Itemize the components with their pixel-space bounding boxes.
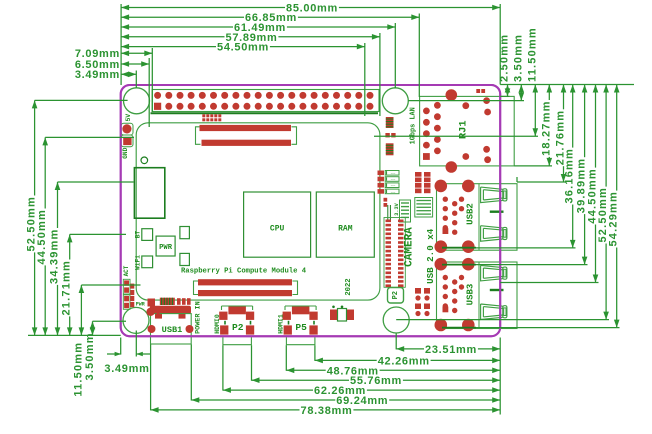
dimension 3.50mm bottom-left [92, 321, 94, 335]
dimension 39.89mm right [584, 85, 586, 265]
dimension 61.49mm top [121, 26, 395, 28]
pad GND [121, 135, 133, 147]
svg-text:P2: P2 [392, 291, 400, 299]
connector RJ1 outline [420, 96, 515, 165]
connector J3 board-to-board bottom bracket [194, 281, 199, 295]
pads cluster below right column [415, 288, 421, 294]
svg-text:P5: P5 [295, 322, 307, 333]
extension line x=364.8 [364, 43, 366, 116]
extension line x=395.3 [394, 23, 396, 89]
dimension 42.26mm bottom [315, 359, 500, 361]
connector J8 GPIO header outline [152, 90, 379, 112]
dimension 78.38mm bottom [151, 409, 501, 411]
mounting hole H1 top-left [124, 88, 150, 114]
dimension 85.00mm top [121, 7, 500, 9]
extension lines top-left [135, 71, 137, 88]
dimension 55.76mm bottom [252, 379, 501, 381]
svg-text:3.50mm: 3.50mm [84, 332, 96, 380]
connector P5 micro-HDMI body [292, 306, 310, 314]
connector DISP box [388, 288, 404, 304]
svg-text:~~: ~~ [391, 185, 396, 189]
dimension 69.24mm bottom [191, 399, 500, 401]
silk line under header [151, 112, 379, 114]
svg-text:54.29mm: 54.29mm [608, 191, 620, 247]
dimension 11.50mm bottom-left [80, 285, 82, 335]
dimension 3.49mm bottom [107, 353, 121, 355]
IC U10 CPU [244, 192, 311, 257]
connector P2 silk bracket [222, 306, 253, 310]
svg-text:P2: P2 [232, 322, 244, 333]
pads C pair [385, 133, 389, 137]
svg-text:~~: ~~ [391, 179, 396, 183]
extension lines bottom-left [120, 338, 122, 355]
svg-text:3.49mm: 3.49mm [75, 69, 120, 81]
dimension 7.09mm [121, 52, 152, 54]
connector USB3 mount pads [435, 258, 448, 271]
crystal X1 [330, 310, 337, 321]
connector J3 pads [198, 279, 292, 285]
svg-text:USB3: USB3 [466, 284, 476, 306]
connector CAMERA pads [386, 220, 392, 223]
dimension 11.50mm right [534, 85, 536, 137]
dimension 2.50mm right [507, 85, 509, 97]
IC U6 PWR [156, 236, 175, 256]
svg-text:11.50mm: 11.50mm [526, 27, 538, 82]
resistor rows right column [415, 172, 422, 177]
baseline bottom-right [499, 338, 501, 415]
connector RJ1 mount pads [446, 89, 458, 101]
dimension 21.71mm left [69, 234, 71, 335]
component SD/eMMC U3 [134, 168, 164, 219]
connector RJ1 pin pads [423, 108, 430, 115]
wires to camera [387, 205, 389, 220]
extension lines bottom [150, 345, 152, 411]
dimension 54.50mm top [121, 46, 365, 48]
module outline CM4 [136, 123, 380, 300]
dimension 62.26mm bottom [223, 389, 500, 391]
svg-text:34.39mm: 34.39mm [49, 229, 61, 285]
svg-text:5V: 5V [125, 114, 132, 122]
connector USB1 mount pads [148, 299, 156, 307]
IC U11 RAM [316, 192, 374, 257]
mounting hole H4 bottom-right [383, 307, 409, 333]
svg-text:78.38mm: 78.38mm [301, 405, 353, 417]
svg-text:GND: GND [122, 147, 129, 158]
svg-text:~~: ~~ [391, 173, 396, 177]
LED PWR pads [124, 296, 129, 301]
connector J17 fan header [202, 114, 205, 117]
connector USB1 body [150, 306, 191, 314]
connector USB3 outline [437, 262, 518, 329]
mounting hole H2 top-right [382, 88, 408, 114]
svg-text:18.27mm: 18.27mm [540, 100, 552, 156]
connector P5 silk bracket [285, 306, 316, 310]
svg-text:WiFi: WiFi [135, 255, 142, 270]
svg-text:3.50mm: 3.50mm [512, 34, 524, 82]
svg-text:PWR: PWR [136, 302, 145, 308]
dimension 3.50mm right [520, 85, 522, 101]
pads under resistor rows [384, 198, 388, 202]
connector P5 outline below board [286, 337, 315, 345]
component BT [142, 229, 153, 241]
connector USB1 outline [151, 314, 192, 344]
svg-text:USB 2.0 x4: USB 2.0 x4 [425, 228, 436, 284]
dimension 21.76mm right [563, 85, 565, 183]
svg-text:36.16mm: 36.16mm [564, 148, 576, 204]
dimension 44.50mm left [44, 137, 46, 335]
resistor row above USB1 [177, 298, 181, 305]
svg-text:USB1: USB1 [162, 325, 183, 335]
dimension 36.16mm right [572, 85, 574, 248]
extension line left edge top [120, 4, 122, 85]
feature line for 21.71mm [70, 233, 126, 235]
svg-text:23.51mm: 23.51mm [425, 344, 477, 356]
svg-text:~~: ~~ [391, 191, 396, 195]
svg-text:RAM: RAM [338, 225, 353, 234]
dimension 23.51mm bottom [396, 348, 500, 350]
connector USB2 outline [437, 184, 518, 251]
dimension 54.29mm right [616, 85, 618, 328]
pad 5V [121, 123, 133, 135]
inductor L2 [386, 143, 394, 155]
extension line x=379.9 [379, 33, 381, 116]
dimension 3.49mm top [121, 73, 136, 75]
connector USB3 small pads [443, 275, 448, 280]
svg-text:POWER IN: POWER IN [195, 301, 203, 334]
connector P2 outline below board [223, 337, 252, 345]
connector CAMERA outline [384, 218, 405, 288]
via [141, 157, 148, 164]
dimension 52.50mm right [605, 85, 607, 320]
extension line x=419.3 [418, 14, 420, 98]
svg-text:CAMERA: CAMERA [404, 227, 416, 267]
feature line for 52.50mm [35, 99, 128, 101]
dimension 34.39mm left [57, 182, 59, 335]
connector USB3 ports [481, 265, 503, 281]
svg-text:21.71mm: 21.71mm [61, 260, 73, 316]
svg-text:HDMI0: HDMI0 [214, 314, 221, 334]
baseline bottom-left [28, 334, 121, 336]
svg-text:42.26mm: 42.26mm [378, 355, 430, 367]
IC U9 microtext box [415, 198, 433, 218]
dimension 6.50mm [121, 63, 149, 65]
svg-text:54.50mm: 54.50mm [217, 42, 269, 54]
feature line for 34.39mm [58, 181, 134, 183]
dimension 44.50mm right [595, 85, 597, 283]
extension line x=500.2 [499, 4, 501, 85]
dimension 48.76mm bottom [286, 369, 500, 371]
dimension 18.27mm right [548, 85, 550, 166]
component C squares right of PWR [180, 227, 190, 239]
svg-text:11.50mm: 11.50mm [72, 342, 84, 397]
svg-text:44.50mm: 44.50mm [36, 209, 48, 265]
svg-text:1Gbps LAN: 1Gbps LAN [409, 107, 417, 144]
connector J2 pads [200, 125, 292, 131]
feature line for 44.50mm [45, 136, 134, 138]
connector USB2 mount pads [435, 180, 448, 193]
mounting hole H3 bottom-left [123, 307, 149, 333]
svg-text:2022: 2022 [345, 278, 353, 295]
dimension 57.89mm top [121, 36, 380, 38]
svg-text:ACT: ACT [123, 265, 130, 276]
svg-text:USB2: USB2 [466, 203, 476, 225]
resistor rows left of camera [378, 171, 385, 176]
inductor L1 [386, 117, 394, 128]
dimension 52.50mm left [34, 100, 36, 335]
feature lines right [500, 95, 509, 97]
baseline top-right [500, 84, 634, 86]
svg-text:HDMI1: HDMI1 [278, 314, 285, 334]
svg-text:3.49mm: 3.49mm [104, 363, 149, 375]
component WiFi [142, 256, 153, 268]
pin row lines USB [442, 247, 476, 249]
svg-text:CPU: CPU [270, 225, 285, 234]
IC with microtext [400, 200, 411, 222]
svg-text:BT: BT [135, 231, 142, 239]
separator bars USB [490, 210, 504, 212]
connector P2 micro-HDMI body [228, 306, 246, 314]
svg-text:PWR: PWR [159, 244, 173, 252]
connector USB2 small pads [443, 197, 448, 202]
svg-text:2.50mm: 2.50mm [499, 34, 511, 82]
board outline Edge.Cuts [121, 85, 501, 336]
dimension 66.85mm top [121, 16, 419, 18]
board outline restroke [121, 85, 501, 336]
pads top edge near RJ1 [476, 89, 480, 93]
connector J8 GPIO pins 2x20 [154, 92, 374, 110]
svg-text:Raspberry Pi Compute Module 4: Raspberry Pi Compute Module 4 [181, 267, 307, 275]
connector J2 board-to-board top bracket [196, 127, 201, 145]
connector USB2 ports [481, 187, 503, 203]
